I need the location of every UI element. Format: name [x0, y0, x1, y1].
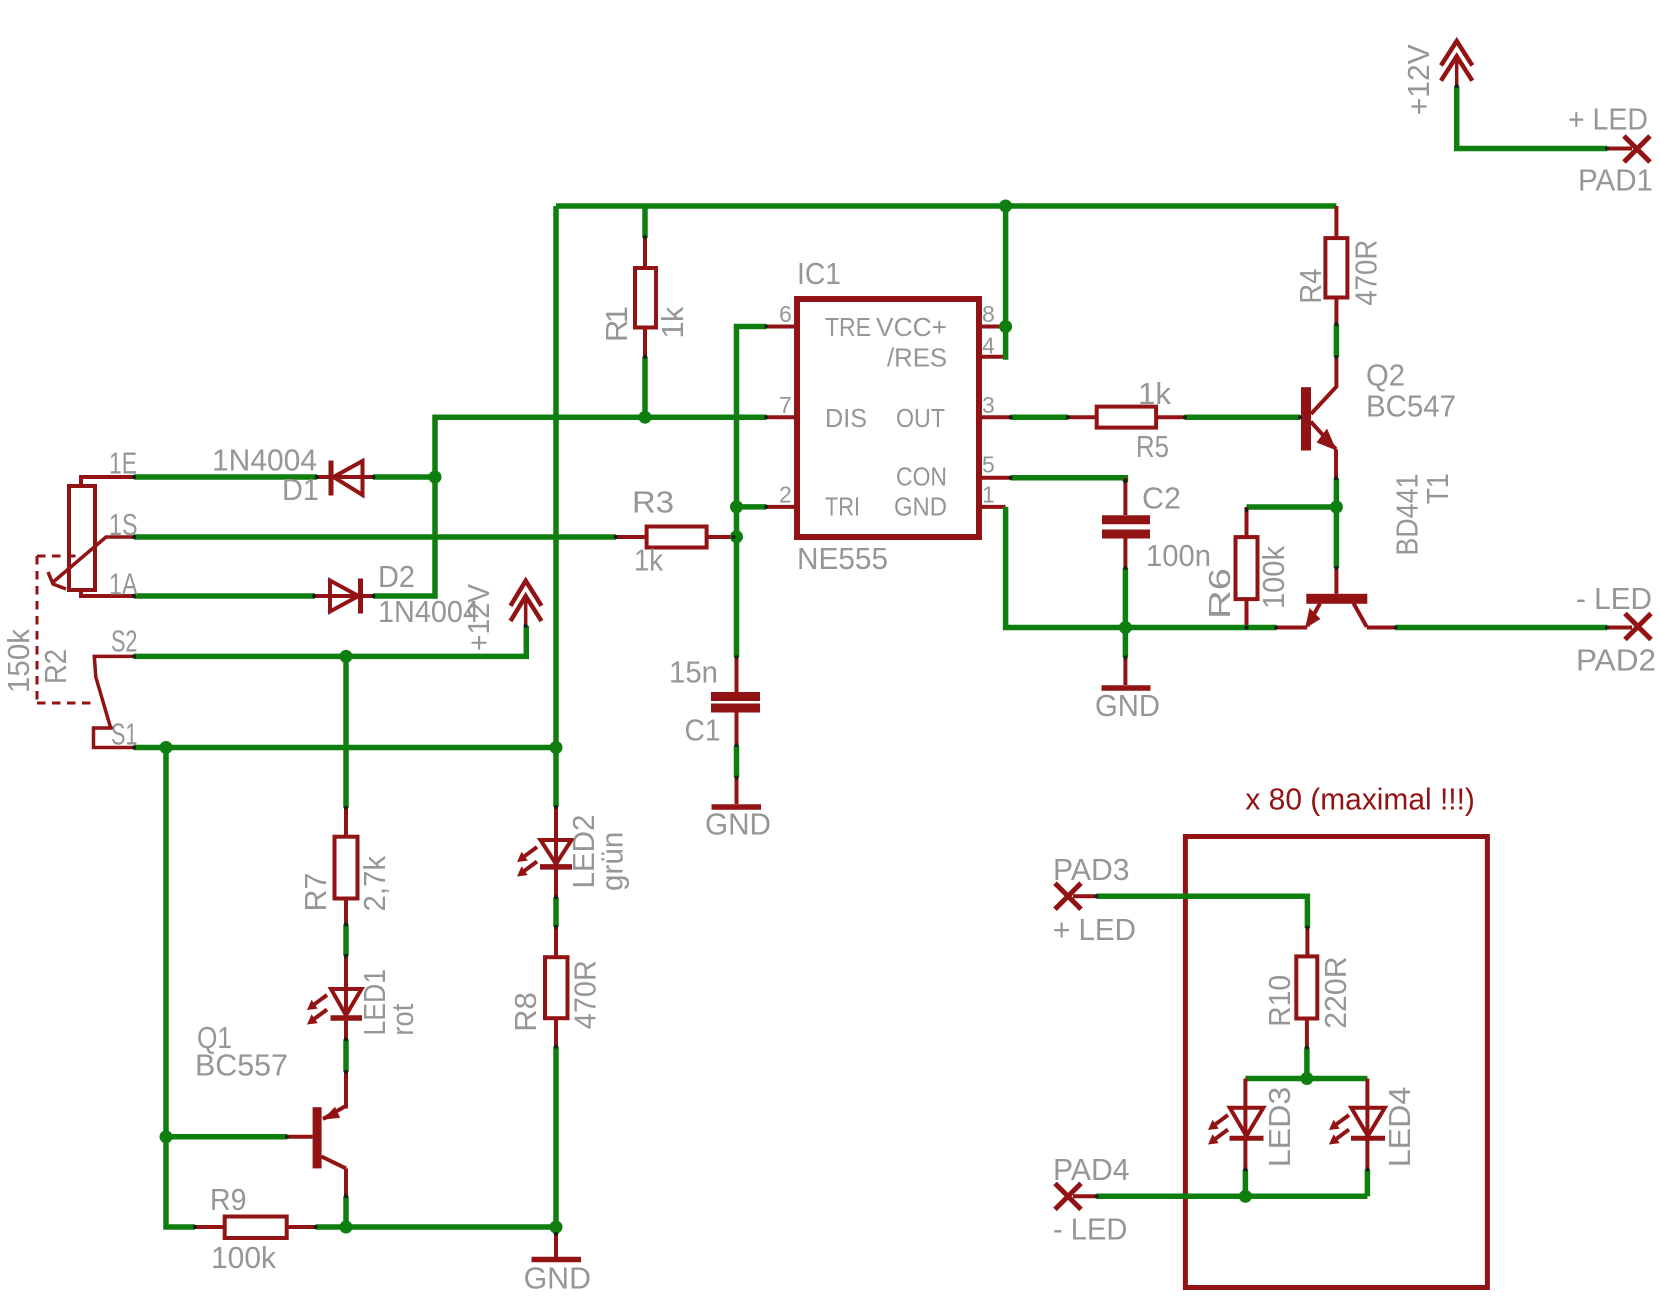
pin 3 OUT: [981, 415, 1011, 419]
wire R6 top: [1247, 504, 1337, 510]
junction top rail / IC supply: [999, 200, 1012, 213]
junction VCC vertical pins 8/4: [1003, 206, 1006, 357]
pin 5 CON: [981, 476, 1011, 480]
svg-text:OUT: OUT: [896, 403, 945, 433]
junction Q2 emitter / R6 / T1 base: [1330, 501, 1343, 514]
wire Q1 collector to rail: [343, 1196, 349, 1227]
PAD1 pin: [1607, 147, 1632, 151]
svg-text:GND: GND: [524, 1261, 591, 1296]
ground GND (bottom): [532, 1227, 582, 1260]
wire R4 to Q2 collector: [1334, 324, 1340, 357]
resistor R10: [1296, 928, 1317, 1048]
wire R1 bottom to DIS: [642, 357, 648, 418]
wire PAD4 net: [1097, 1194, 1368, 1200]
x80 module box: [1185, 837, 1487, 1288]
svg-text:2,7k: 2,7k: [357, 855, 392, 911]
switch S1 lever and contacts: [94, 656, 135, 747]
resistor R7: [335, 808, 358, 925]
PAD3 X symbol: [1055, 883, 1081, 909]
wire OUT to R5: [1011, 414, 1068, 420]
wire CON to C2: [1011, 478, 1126, 482]
svg-text:R3: R3: [632, 485, 674, 520]
PAD1 X symbol: [1624, 136, 1650, 162]
junction R10 / bus: [1300, 1072, 1313, 1085]
pin 4 /RES: [981, 355, 1004, 359]
svg-text:1: 1: [982, 482, 995, 508]
wire bottom GND rail: [316, 1224, 557, 1230]
svg-text:- LED: - LED: [1053, 1212, 1127, 1247]
pin 8 VCC+: [981, 325, 1011, 329]
svg-text:+ LED: + LED: [1053, 912, 1136, 947]
svg-text:- LED: - LED: [1576, 581, 1652, 616]
R2 dashed coupling to switch: [37, 556, 95, 703]
resistor R5: [1068, 407, 1185, 428]
+12V supply symbol (top right): [1441, 41, 1472, 86]
svg-text:R10: R10: [1262, 975, 1297, 1027]
wire LED3/LED4 top bus: [1245, 1076, 1367, 1082]
PAD3 pin: [1073, 894, 1097, 898]
junction LED3 / PAD4 net: [1239, 1190, 1252, 1203]
svg-text:GND: GND: [705, 806, 771, 841]
svg-text:3: 3: [982, 392, 995, 418]
svg-text:grün: grün: [595, 832, 630, 891]
diode D2 1N4004: [314, 579, 374, 614]
wire TRE/TRI vertical: [737, 327, 767, 658]
wire R5 to Q2 base: [1185, 414, 1300, 420]
resistor R1: [635, 237, 656, 357]
svg-text:4: 4: [982, 333, 995, 359]
svg-text:PAD3: PAD3: [1053, 852, 1130, 887]
junction R3/TRI column: [730, 530, 743, 543]
svg-text:6: 6: [779, 301, 792, 327]
wire top rail to R4: [1334, 206, 1338, 238]
resistor R4: [1325, 238, 1347, 324]
svg-text:8: 8: [982, 301, 995, 327]
wire 1S net: [134, 534, 616, 540]
svg-text:5: 5: [982, 451, 995, 477]
svg-text:100k: 100k: [1256, 546, 1291, 609]
svg-text:R7: R7: [298, 873, 333, 912]
wire Q1 base: [166, 1134, 287, 1140]
wire D1 to DIS column: [373, 474, 435, 480]
svg-text:100k: 100k: [211, 1240, 276, 1275]
svg-text:TRE: TRE: [825, 312, 871, 342]
potentiometer R2 150k: [48, 477, 134, 596]
svg-text:R6: R6: [1202, 568, 1237, 619]
svg-text:R5: R5: [1136, 429, 1169, 464]
svg-text:NE555: NE555: [797, 541, 888, 576]
wire top VCC rail: [556, 203, 1336, 209]
svg-text:470R: 470R: [1349, 240, 1384, 306]
wire C2 bottom to GND rail: [1123, 568, 1129, 628]
wire GND rail (pin1 to T1 emitter): [1006, 507, 1277, 628]
wire LED1 to Q1 emitter: [343, 1039, 349, 1072]
junction R8 / GND rail: [550, 1221, 563, 1234]
wire R1 top stub: [642, 206, 648, 238]
svg-text:100n: 100n: [1146, 538, 1211, 573]
wire LED2 to R8: [553, 897, 559, 927]
wire LED3 to PAD4 net: [1243, 1169, 1249, 1196]
wire C1 to GND: [734, 745, 740, 777]
svg-text:S2: S2: [111, 624, 137, 659]
wire R10 to LED3/LED4 bus: [1304, 1047, 1310, 1078]
svg-text:GND: GND: [894, 492, 947, 522]
svg-text:rot: rot: [385, 1003, 420, 1035]
svg-text:+12V: +12V: [1401, 44, 1436, 115]
svg-text:R1: R1: [599, 306, 634, 342]
ground GND (under C1): [712, 778, 762, 807]
PAD4 pin: [1073, 1194, 1097, 1198]
svg-text:VCC+: VCC+: [876, 312, 947, 342]
wire S2 to R7: [343, 656, 349, 808]
transistor T1 BD441: [1276, 568, 1395, 628]
resistor R8: [545, 927, 568, 1047]
wire R7 to LED1: [343, 924, 349, 956]
svg-text:LED4: LED4: [1382, 1087, 1417, 1168]
svg-text:R9: R9: [210, 1182, 247, 1217]
transistor Q1 BC557: [287, 1072, 346, 1196]
svg-text:1E: 1E: [109, 446, 137, 481]
wire PAD3 to R10: [1097, 896, 1308, 928]
svg-text:C2: C2: [1142, 480, 1181, 515]
capacitor C2 100n: [1102, 478, 1150, 568]
junction S2/R7: [340, 650, 353, 663]
svg-text:R4: R4: [1293, 269, 1328, 304]
svg-text:R8: R8: [508, 992, 543, 1032]
wire +12V to PAD1: [1457, 86, 1607, 149]
LED LED1 rot: [307, 956, 362, 1039]
wire pin2 stub: [737, 504, 767, 510]
svg-text:1k: 1k: [655, 306, 690, 339]
svg-text:220R: 220R: [1318, 956, 1353, 1028]
wire R8 to GND rail: [553, 1047, 559, 1228]
op-amp/timer IC1 NE555 box: [797, 299, 979, 537]
wire S1 left vertical: [166, 748, 195, 1228]
pin 6 TRE: [766, 325, 795, 329]
svg-text:TRI: TRI: [825, 492, 860, 522]
svg-text:Q2: Q2: [1366, 358, 1405, 393]
svg-text:D1: D1: [282, 472, 319, 507]
svg-text:1k: 1k: [634, 543, 663, 578]
resistor R9: [195, 1217, 316, 1239]
wire DIS net (pin7 to D1/D2 column): [373, 417, 766, 596]
svg-text:DIS: DIS: [825, 403, 867, 433]
resistor R6: [1236, 507, 1258, 628]
svg-text:R2: R2: [38, 649, 73, 684]
svg-text:GND: GND: [1095, 688, 1160, 723]
junction R1/DIS: [639, 411, 652, 424]
LED LED2 gruen: [517, 807, 572, 897]
ground GND (under C2 junction): [1102, 628, 1151, 689]
wire S2 net: [134, 626, 526, 657]
junction GND rail / C2: [1119, 621, 1132, 634]
svg-text:IC1: IC1: [797, 256, 841, 291]
pin 1 GND: [981, 505, 1006, 509]
PAD2 pin: [1607, 626, 1632, 630]
junction S1/VCC vertical: [550, 741, 563, 754]
capacitor C1 15n: [711, 657, 760, 745]
svg-text:15n: 15n: [669, 655, 718, 690]
wire VCC vertical to S1/LED2: [553, 206, 559, 807]
svg-text:470R: 470R: [568, 960, 603, 1029]
PAD2 X symbol: [1625, 614, 1651, 640]
svg-text:PAD2: PAD2: [1576, 642, 1656, 677]
svg-text:BC557: BC557: [195, 1048, 288, 1083]
pin 7 DIS: [766, 415, 795, 419]
wire 1E net: [134, 474, 317, 480]
wire S1 net: [134, 745, 556, 751]
junction S1/left vertical: [160, 741, 173, 754]
junction D1/DIS column: [429, 471, 442, 484]
svg-text:7: 7: [779, 392, 792, 418]
transistor Q2 BC547: [1301, 357, 1337, 478]
wire 1A net: [134, 593, 315, 599]
svg-text:2: 2: [779, 482, 792, 508]
pin 2 TRI: [766, 505, 795, 509]
LED LED4: [1329, 1079, 1385, 1170]
wire Q2 emitter to T1 base: [1334, 478, 1340, 568]
svg-text:+ LED: + LED: [1568, 102, 1648, 137]
svg-text:PAD1: PAD1: [1578, 162, 1653, 197]
svg-text:LED3: LED3: [1262, 1087, 1297, 1168]
+12V supply symbol (at S2): [511, 581, 542, 626]
svg-text:1k: 1k: [1138, 376, 1171, 411]
svg-text:/RES: /RES: [887, 342, 947, 372]
wire LED4 to PAD4 net: [1365, 1169, 1371, 1196]
junction Q1 collector / rail: [340, 1221, 353, 1234]
svg-text:C1: C1: [685, 713, 721, 748]
wire T1 collector to PAD2: [1396, 625, 1607, 631]
resistor R3: [616, 527, 734, 548]
junction TRI: [730, 500, 743, 513]
pin end dots: [132, 84, 1609, 1236]
svg-text:D2: D2: [378, 559, 415, 594]
LED LED3: [1208, 1079, 1264, 1170]
diode D1 1N4004: [316, 461, 374, 496]
svg-text:CON: CON: [896, 461, 947, 491]
svg-text:T1: T1: [1420, 473, 1455, 504]
svg-text:PAD4: PAD4: [1053, 1152, 1130, 1187]
svg-text:+12V: +12V: [461, 584, 496, 651]
svg-text:BC547: BC547: [1366, 388, 1456, 423]
PAD4 X symbol: [1055, 1183, 1081, 1209]
svg-text:x 80 (maximal !!!): x 80 (maximal !!!): [1245, 782, 1475, 817]
svg-text:150k: 150k: [1, 629, 36, 693]
junction base/left vertical: [160, 1130, 173, 1143]
